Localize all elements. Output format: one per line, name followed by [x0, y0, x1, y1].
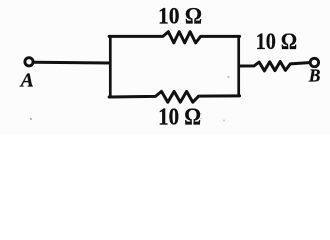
resistor R1 10ohm top branch with wires — [109, 32, 240, 43]
terminal B — [310, 58, 318, 66]
svg-text:10 Ω: 10 Ω — [158, 104, 201, 130]
wire A to parallel box — [35, 61, 110, 65]
resistor R2 10ohm bottom branch with wires — [109, 91, 240, 102]
terminal A — [25, 58, 33, 66]
svg-text:10 Ω: 10 Ω — [158, 3, 202, 29]
svg-text:A: A — [19, 71, 34, 92]
scan speckle artifacts — [30, 118, 32, 120]
svg-text:10 Ω: 10 Ω — [256, 29, 298, 54]
node: box left vertical wire — [109, 36, 112, 97]
svg-text:B: B — [308, 66, 321, 86]
node: box right vertical wire — [237, 36, 240, 96]
resistor R3 10ohm series with wires — [239, 62, 309, 71]
